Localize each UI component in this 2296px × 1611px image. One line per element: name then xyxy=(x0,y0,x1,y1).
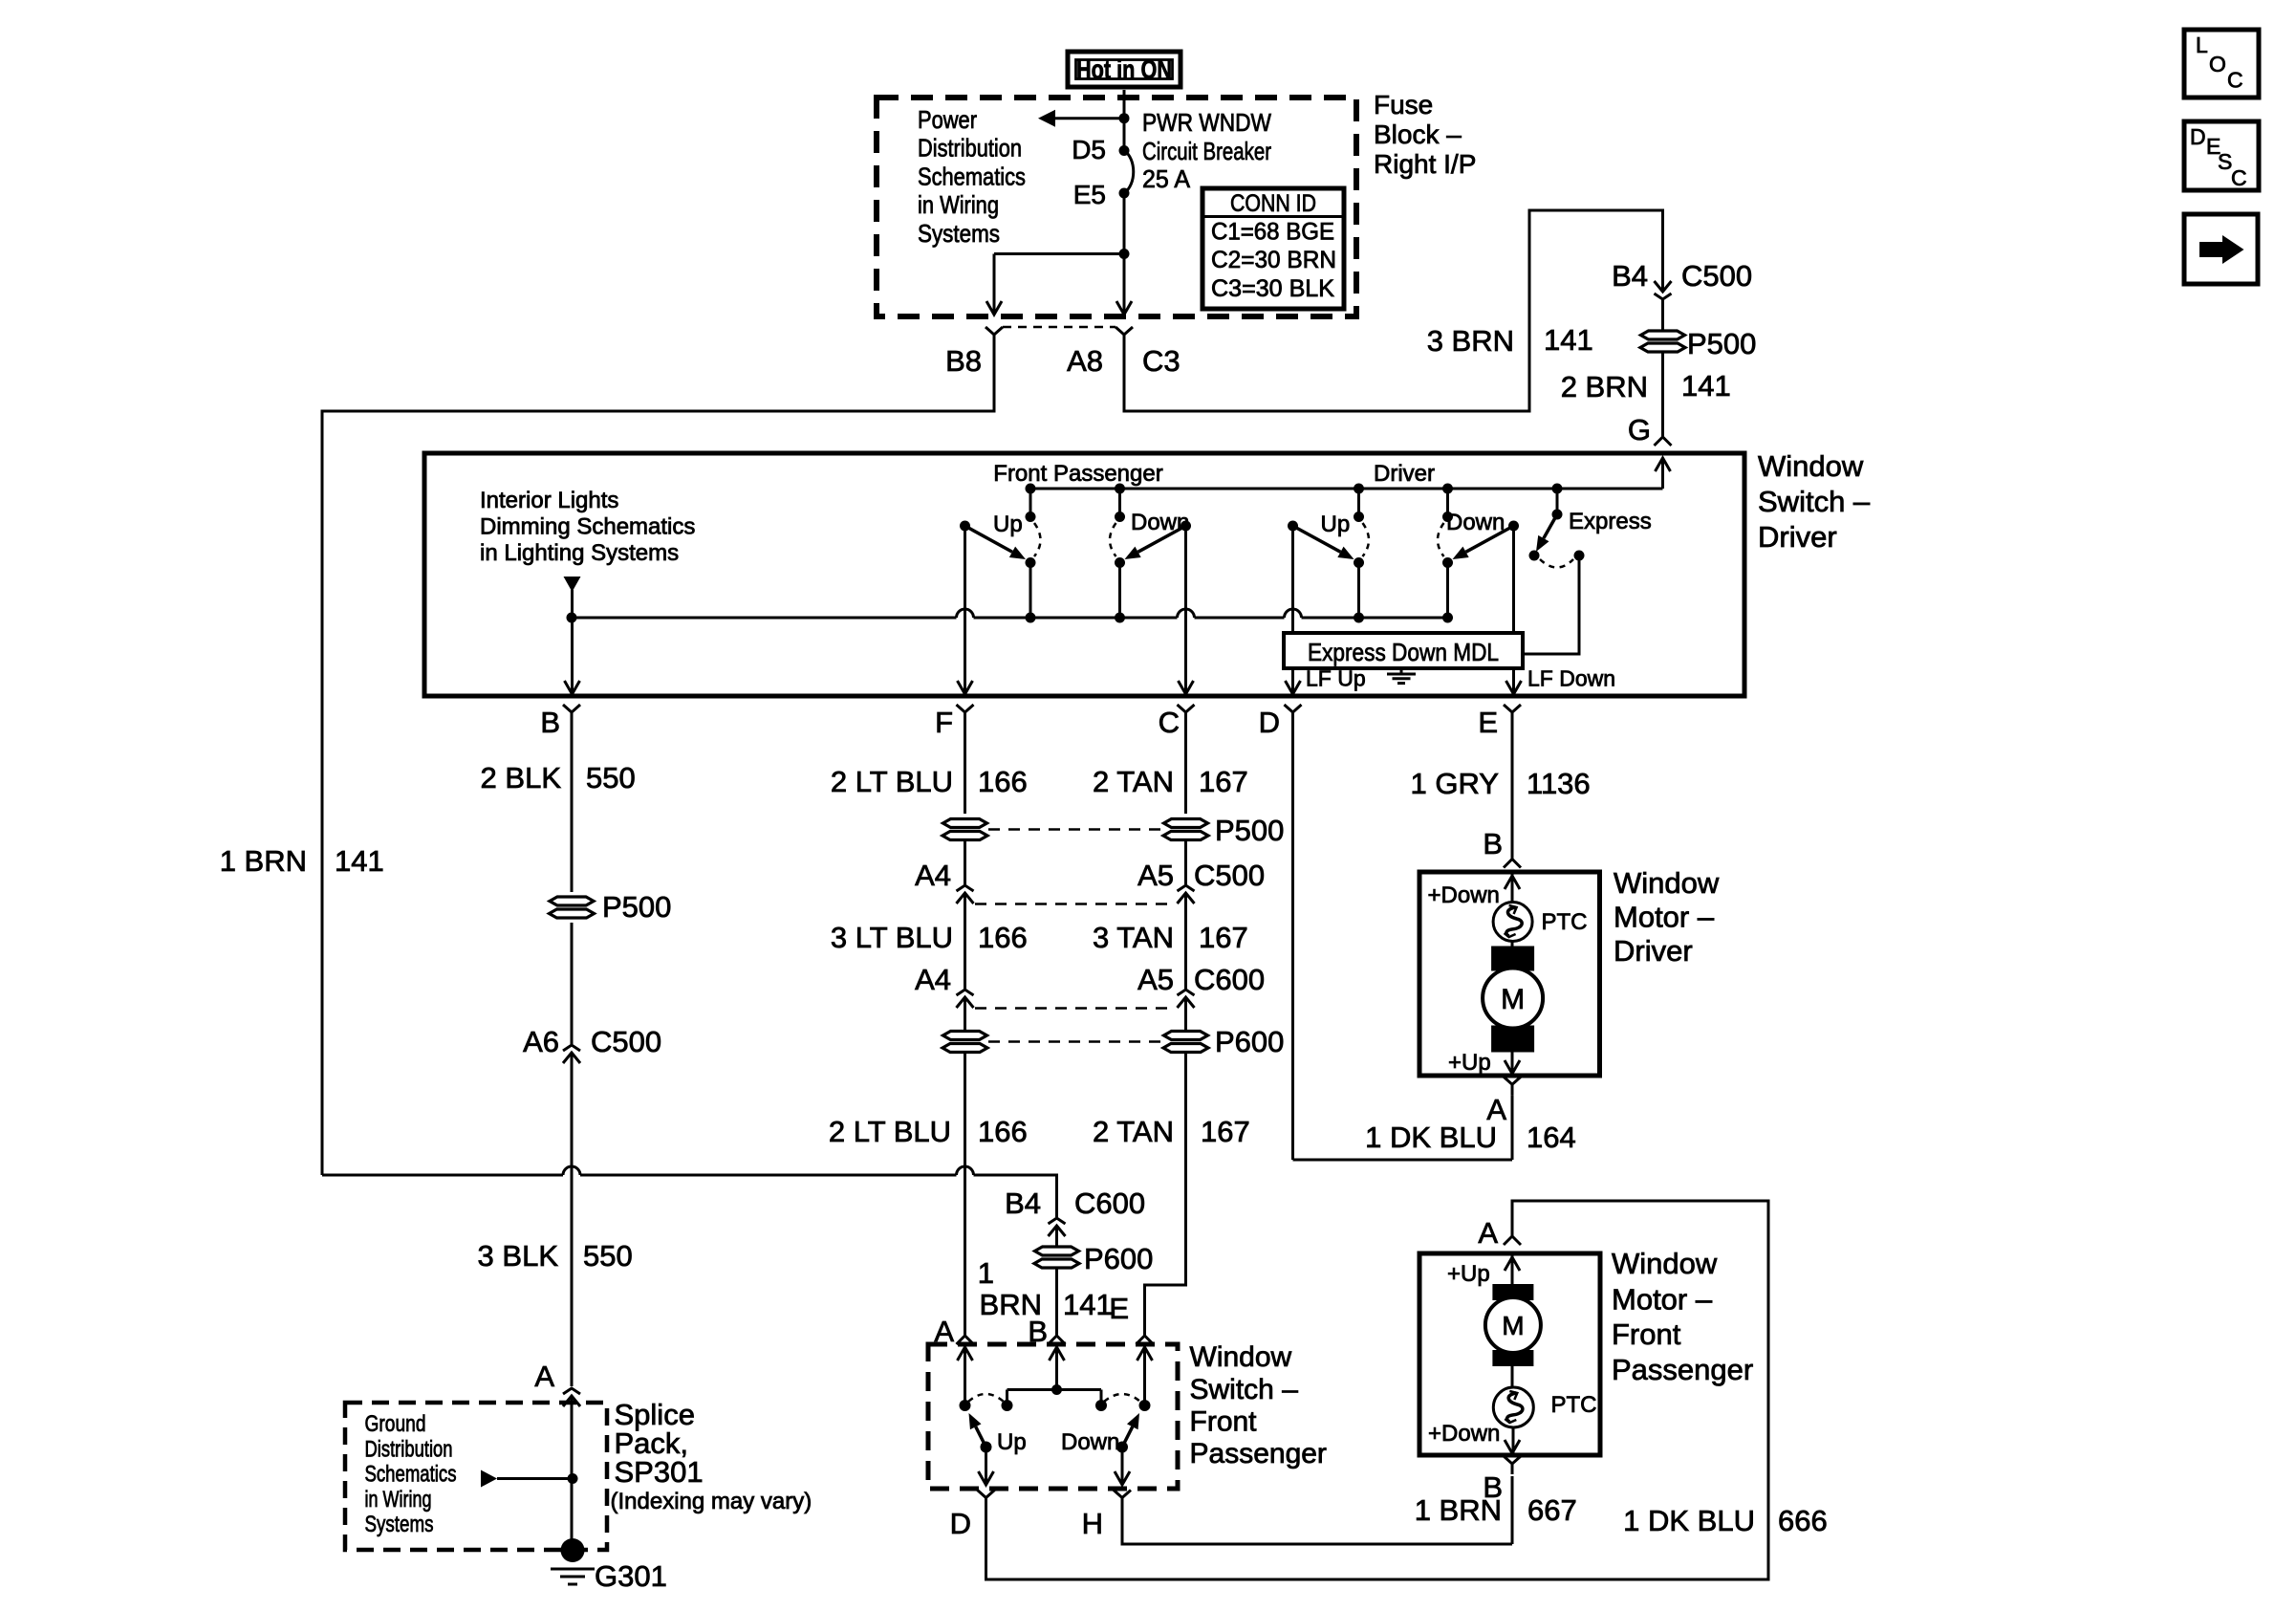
svg-text:Switch –: Switch – xyxy=(1758,485,1871,518)
svg-text:P600: P600 xyxy=(1215,1025,1284,1058)
svg-text:1: 1 xyxy=(978,1256,994,1290)
svg-text:(Indexing may vary): (Indexing may vary) xyxy=(611,1489,812,1514)
svg-text:167: 167 xyxy=(1199,765,1248,798)
svg-text:Motor –: Motor – xyxy=(1614,901,1715,934)
svg-text:Front: Front xyxy=(1612,1317,1681,1351)
svg-text:C: C xyxy=(1159,706,1180,739)
svg-text:Ground: Ground xyxy=(365,1411,426,1437)
svg-text:Passenger: Passenger xyxy=(1190,1438,1327,1469)
svg-text:1 DK BLU: 1 DK BLU xyxy=(1623,1504,1755,1537)
svg-text:A: A xyxy=(1478,1216,1498,1250)
svg-text:D5: D5 xyxy=(1072,135,1106,164)
svg-text:550: 550 xyxy=(583,1239,633,1273)
svg-text:Dimming Schematics: Dimming Schematics xyxy=(480,514,695,540)
svg-text:2 LT BLU: 2 LT BLU xyxy=(831,765,953,798)
svg-text:H: H xyxy=(1082,1507,1103,1540)
svg-text:PWR WNDW: PWR WNDW xyxy=(1142,108,1271,137)
svg-text:Down: Down xyxy=(1446,510,1505,535)
svg-text:Block –: Block – xyxy=(1374,120,1462,149)
svg-text:Schematics: Schematics xyxy=(365,1462,457,1488)
svg-text:in Lighting Systems: in Lighting Systems xyxy=(480,540,679,566)
svg-text:Express Down MDL: Express Down MDL xyxy=(1308,638,1499,666)
svg-text:SP301: SP301 xyxy=(615,1455,704,1489)
svg-text:167: 167 xyxy=(1199,921,1248,954)
svg-text:164: 164 xyxy=(1527,1121,1576,1154)
svg-text:C: C xyxy=(2227,68,2243,93)
svg-text:666: 666 xyxy=(1778,1504,1828,1537)
svg-text:141: 141 xyxy=(335,844,384,878)
svg-text:Circuit Breaker: Circuit Breaker xyxy=(1142,137,1271,165)
svg-text:P500: P500 xyxy=(602,890,671,924)
svg-text:166: 166 xyxy=(978,765,1028,798)
svg-text:O: O xyxy=(2209,52,2226,76)
svg-text:P600: P600 xyxy=(1084,1242,1153,1275)
svg-text:Fuse: Fuse xyxy=(1374,90,1433,120)
svg-text:A5: A5 xyxy=(1137,963,1174,996)
svg-text:M: M xyxy=(1502,1311,1524,1340)
svg-text:in Wiring: in Wiring xyxy=(918,190,999,219)
svg-text:Front: Front xyxy=(1190,1406,1258,1438)
svg-text:Driver: Driver xyxy=(1374,461,1435,487)
svg-text:A5: A5 xyxy=(1137,859,1174,892)
svg-text:Systems: Systems xyxy=(918,219,1000,248)
svg-text:D: D xyxy=(1259,706,1280,739)
svg-text:CONN ID: CONN ID xyxy=(1230,190,1316,217)
svg-text:Right I/P: Right I/P xyxy=(1374,149,1476,179)
svg-text:C500: C500 xyxy=(1681,259,1752,293)
svg-text:Schematics: Schematics xyxy=(918,162,1026,190)
svg-text:1 BRN: 1 BRN xyxy=(220,844,307,878)
svg-text:3 BLK: 3 BLK xyxy=(478,1239,559,1273)
svg-text:Driver: Driver xyxy=(1614,934,1693,968)
svg-text:B4: B4 xyxy=(1005,1186,1041,1220)
svg-text:Window: Window xyxy=(1190,1341,1292,1373)
svg-text:PTC: PTC xyxy=(1551,1392,1597,1418)
svg-text:C: C xyxy=(2231,165,2247,190)
svg-text:166: 166 xyxy=(978,921,1028,954)
svg-text:in Wiring: in Wiring xyxy=(365,1487,432,1513)
svg-text:Passenger: Passenger xyxy=(1612,1353,1753,1386)
svg-text:Up: Up xyxy=(993,512,1023,537)
svg-text:Distribution: Distribution xyxy=(918,134,1022,163)
svg-text:550: 550 xyxy=(586,761,636,795)
svg-text:141: 141 xyxy=(1681,369,1731,403)
svg-text:+Down: +Down xyxy=(1428,1421,1500,1447)
svg-text:+Down: +Down xyxy=(1428,882,1500,908)
svg-text:25 A: 25 A xyxy=(1142,164,1191,193)
svg-text:3 BRN: 3 BRN xyxy=(1427,324,1514,358)
svg-text:Hot in ON: Hot in ON xyxy=(1076,54,1172,84)
svg-text:Distribution: Distribution xyxy=(365,1436,453,1462)
svg-text:3 LT BLU: 3 LT BLU xyxy=(831,921,953,954)
svg-text:C600: C600 xyxy=(1194,963,1265,996)
svg-text:C500: C500 xyxy=(1194,859,1265,892)
svg-text:167: 167 xyxy=(1201,1115,1250,1148)
svg-text:Interior Lights: Interior Lights xyxy=(480,488,618,513)
svg-text:B4: B4 xyxy=(1612,259,1648,293)
svg-text:C600: C600 xyxy=(1074,1186,1145,1220)
svg-text:A8: A8 xyxy=(1067,344,1103,378)
svg-text:1 DK BLU: 1 DK BLU xyxy=(1365,1121,1497,1154)
svg-text:Down: Down xyxy=(1061,1429,1119,1455)
svg-text:B8: B8 xyxy=(945,344,982,378)
svg-text:E: E xyxy=(1109,1292,1129,1325)
svg-text:+Up: +Up xyxy=(1448,1050,1491,1076)
svg-text:C500: C500 xyxy=(591,1025,661,1058)
svg-text:C1=68 BGE: C1=68 BGE xyxy=(1211,219,1334,246)
svg-text:G: G xyxy=(1628,413,1651,446)
svg-text:2 LT BLU: 2 LT BLU xyxy=(829,1115,951,1148)
svg-text:A4: A4 xyxy=(915,859,951,892)
svg-text:Systems: Systems xyxy=(365,1512,434,1537)
svg-text:L: L xyxy=(2196,33,2208,57)
svg-text:E: E xyxy=(1478,706,1498,739)
svg-text:Front Passenger: Front Passenger xyxy=(993,461,1162,487)
svg-text:P500: P500 xyxy=(1687,327,1756,360)
svg-text:LF Up: LF Up xyxy=(1306,666,1366,691)
svg-text:D: D xyxy=(950,1507,971,1540)
svg-text:B: B xyxy=(540,706,560,739)
svg-text:Express: Express xyxy=(1569,509,1652,534)
svg-text:A4: A4 xyxy=(915,963,951,996)
svg-text:141: 141 xyxy=(1063,1288,1113,1321)
svg-text:Switch –: Switch – xyxy=(1190,1374,1299,1405)
svg-text:Motor –: Motor – xyxy=(1612,1283,1713,1317)
svg-text:C3=30 BLK: C3=30 BLK xyxy=(1211,275,1334,302)
svg-text:D: D xyxy=(2190,124,2206,149)
svg-text:141: 141 xyxy=(1544,323,1593,357)
svg-text:A: A xyxy=(534,1360,554,1393)
svg-text:+Up: +Up xyxy=(1447,1261,1490,1287)
svg-text:M: M xyxy=(1501,984,1525,1015)
svg-text:A6: A6 xyxy=(523,1025,559,1058)
svg-text:Window: Window xyxy=(1612,1247,1718,1280)
svg-text:B: B xyxy=(1483,1470,1503,1504)
svg-text:Driver: Driver xyxy=(1758,520,1837,554)
svg-text:2 TAN: 2 TAN xyxy=(1093,765,1174,798)
svg-text:P500: P500 xyxy=(1215,814,1284,847)
svg-text:1 GRY: 1 GRY xyxy=(1411,767,1499,800)
svg-text:3 TAN: 3 TAN xyxy=(1093,921,1174,954)
svg-text:F: F xyxy=(935,706,953,739)
svg-text:G301: G301 xyxy=(595,1559,667,1593)
svg-text:Window: Window xyxy=(1614,866,1720,900)
svg-text:166: 166 xyxy=(978,1115,1028,1148)
svg-text:Up: Up xyxy=(1321,512,1351,537)
svg-text:1136: 1136 xyxy=(1527,767,1591,800)
svg-text:Power: Power xyxy=(918,105,977,134)
svg-text:Down: Down xyxy=(1131,510,1189,535)
svg-text:E5: E5 xyxy=(1073,180,1106,209)
svg-text:Window: Window xyxy=(1758,449,1864,483)
svg-text:C2=30 BRN: C2=30 BRN xyxy=(1211,247,1336,273)
svg-text:2 TAN: 2 TAN xyxy=(1093,1115,1174,1148)
svg-text:667: 667 xyxy=(1527,1493,1577,1527)
svg-text:Up: Up xyxy=(997,1429,1027,1455)
svg-text:LF Down: LF Down xyxy=(1527,666,1615,691)
svg-text:C3: C3 xyxy=(1142,344,1180,378)
svg-text:2 BRN: 2 BRN xyxy=(1561,370,1648,403)
svg-text:2 BLK: 2 BLK xyxy=(481,761,562,795)
svg-text:B: B xyxy=(1483,827,1503,860)
svg-text:PTC: PTC xyxy=(1542,909,1588,935)
